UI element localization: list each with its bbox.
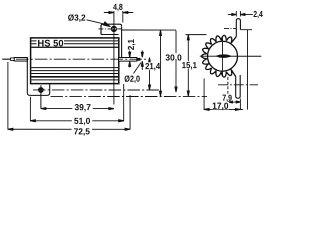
dimension 2,1 (lug thickness) bbox=[129, 50, 131, 67]
tab hole center dash-dot bbox=[224, 27, 236, 29]
right solder lug bbox=[119, 57, 137, 61]
dimension 39,7 bbox=[41, 108, 114, 110]
left solder lug bbox=[14, 57, 27, 61]
dimension 30,0 bbox=[159, 30, 161, 96]
extension dimension line V3 bbox=[175, 30, 177, 92]
mounting plane dash-dot bbox=[50, 95, 206, 97]
hole center line vertical (also 4,8 / 39,7 extension) bbox=[113, 11, 115, 105]
dimension 51,0 bbox=[30, 120, 123, 122]
dimension 4,8 bbox=[122, 11, 124, 22]
dimension 21,4 bbox=[148, 58, 150, 90]
foot hole center dash-dot bbox=[218, 84, 258, 86]
extension lines bottom dims bbox=[7, 62, 9, 129]
bracket top edge line right bbox=[240, 29, 252, 31]
hole center line horizontal (dash-dot) bbox=[98, 28, 121, 30]
hole center dash-dot to right bbox=[33, 89, 161, 91]
dimension 7,9 bbox=[228, 101, 240, 103]
dimension Ø2,0 (lead) bbox=[141, 51, 143, 70]
dimension 17,0 bbox=[203, 79, 205, 110]
bottom-left mounting foot bbox=[27, 84, 49, 96]
bottom foot hole bbox=[38, 87, 44, 93]
extension line to 15,1 bbox=[186, 34, 207, 36]
left lead wire bbox=[2, 58, 10, 60]
dimension 15,1 bbox=[187, 35, 189, 96]
end view top tab bbox=[236, 19, 240, 37]
top-right mounting tab bbox=[101, 24, 122, 34]
far bracket vertical line bbox=[246, 30, 248, 110]
lug seen end-on (lens) bbox=[215, 54, 231, 57]
hidden tab dashed line bbox=[227, 77, 229, 95]
label HS 50 bbox=[38, 40, 63, 47]
dimension 72,5 bbox=[8, 128, 130, 130]
dimension 2,4 bbox=[236, 11, 240, 17]
top tab hole bbox=[111, 26, 117, 32]
end view body circle bbox=[207, 41, 237, 71]
body fin lines lower bbox=[31, 68, 118, 80]
left bracket edge bbox=[26, 57, 28, 92]
end view fins bbox=[202, 35, 237, 77]
leader Ø3,2 bbox=[87, 20, 107, 25]
resistor body outline (side view) bbox=[31, 38, 119, 84]
extension line tab plane to 30,0 bbox=[122, 29, 176, 31]
label Ø3,2 bbox=[68, 14, 85, 22]
body fin lines upper bbox=[31, 41, 118, 47]
horizontal center line through leads (dash-dot) bbox=[16, 58, 147, 60]
end view bottom foot bbox=[236, 75, 241, 98]
right bracket edge bbox=[121, 26, 123, 57]
right lead wire stub bbox=[137, 58, 141, 61]
end view center cross bbox=[200, 55, 261, 57]
